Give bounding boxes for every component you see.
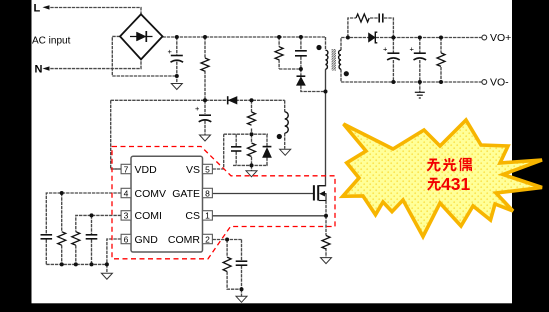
aux winding [285, 112, 289, 133]
svg-text:VO-: VO- [490, 77, 509, 89]
wire COMI cap [91, 215, 93, 264]
junction COMR node [225, 238, 229, 242]
wire COMV resistor [61, 193, 63, 264]
diode D-out (schottky) [369, 32, 378, 43]
wire VS network bottom node [233, 164, 268, 166]
junction load resistor top node [439, 36, 443, 40]
svg-text:AC input: AC input [32, 36, 71, 47]
junction left-bank rail node 1 [60, 262, 64, 266]
starburst text 无光偶 / 无431 [427, 158, 471, 190]
L terminal arrow [43, 5, 50, 9]
svg-text:L: L [34, 3, 41, 15]
svg-text:2: 2 [205, 234, 210, 244]
ground (aux winding) [280, 149, 291, 155]
svg-text:VS: VS [186, 164, 200, 176]
wire primary top [325, 37, 327, 50]
wire VDD pin stub [111, 168, 121, 170]
wire out snubber loop [348, 18, 394, 38]
junction VS network bottom node [250, 163, 254, 167]
wire N line [46, 60, 141, 69]
ground (COMR) [236, 296, 247, 302]
junction left-bank rail node 3 [90, 262, 94, 266]
junction bulk-cap top node [175, 35, 179, 39]
wire snubber C branch [300, 37, 302, 69]
junction output cap1 top node [391, 36, 395, 40]
junction VS network top node [250, 132, 254, 136]
junction aux rail VS-divider node [250, 98, 254, 102]
wire GATE [213, 193, 314, 195]
junction VDD node [203, 98, 207, 102]
resistor R-out-snub (horizontal) [356, 14, 369, 22]
resistor R-startup [201, 58, 209, 71]
wire earth ground stub [419, 82, 421, 92]
svg-text:8: 8 [205, 188, 210, 198]
junction left-bank rail node 2 [74, 262, 78, 266]
svg-text:VDD: VDD [135, 164, 158, 176]
IC pin labels [135, 164, 201, 246]
svg-text:COMR: COMR [168, 234, 200, 246]
junction load resistor bottom node [439, 80, 443, 84]
wire L line [46, 8, 141, 15]
pin 4 [121, 188, 131, 197]
bridge inner diode [130, 31, 153, 42]
svg-text:5: 5 [205, 164, 210, 174]
mosfet arrow [319, 191, 325, 197]
secondary dot [344, 71, 349, 76]
primary dot [316, 45, 321, 50]
wire VS divider upper resistor [251, 100, 253, 134]
wire input cap branch [176, 37, 178, 84]
pin 2 [203, 234, 213, 243]
svg-text:COMI: COMI [135, 210, 162, 222]
junction CS sense node [324, 214, 328, 218]
red dashed boundary [112, 147, 335, 259]
diode D-snub (points up) [297, 76, 306, 85]
wire GND pin [107, 239, 121, 273]
ground (VS net) [246, 171, 257, 177]
svg-text:GATE: GATE [172, 188, 200, 200]
ground (GND pin) [101, 273, 112, 279]
wire bridge left corner to primary ground [112, 36, 177, 76]
bridge rectifier BR1 [120, 14, 163, 59]
wire DC+ rail [163, 36, 326, 38]
svg-text:+: + [168, 47, 173, 56]
wire COMI [76, 215, 121, 264]
svg-text:+: + [195, 104, 200, 113]
junction left-bank rail GND node [105, 262, 109, 266]
svg-text:GND: GND [135, 234, 159, 246]
光 [443, 158, 455, 171]
N terminal arrow [43, 66, 50, 70]
svg-text:1: 1 [205, 211, 210, 221]
svg-text:N: N [35, 64, 43, 76]
capacitor C-vdd [199, 115, 212, 122]
resistor R-comi [72, 232, 80, 245]
svg-text:COMV: COMV [135, 188, 167, 200]
junction output cap1 bottom node [391, 80, 395, 84]
pin 3 [121, 211, 131, 220]
无 (line2) [428, 179, 440, 190]
junction output cap2 bottom node [418, 80, 422, 84]
VO+ terminal [482, 35, 487, 40]
wire VS pin to network [213, 134, 224, 169]
diode D-vs (zener up) [263, 147, 272, 158]
svg-text:CS: CS [185, 210, 200, 222]
无 (line1) [427, 159, 439, 170]
resistor R-cs [322, 236, 330, 249]
resistor R-snub [275, 47, 283, 60]
wire left bank bottom rail [46, 263, 107, 265]
capacitor C-vs [231, 147, 241, 151]
transformer T1 primary [326, 50, 328, 69]
wire aux winding bottom [284, 133, 286, 149]
svg-text:6: 6 [124, 234, 129, 244]
junction COMR ground node [240, 287, 244, 291]
ground (VDD cap) [200, 135, 211, 141]
偶 [459, 158, 471, 171]
junction COMV node [60, 191, 64, 195]
capacitor C-out1 [387, 53, 400, 60]
pin 1 [203, 211, 213, 220]
wire aux winding top [284, 100, 286, 112]
wire COMV [46, 193, 121, 264]
junction snubber RC-diode node [299, 67, 303, 71]
wire secondary top [341, 38, 484, 51]
wire snubber R branch [278, 37, 280, 69]
ground (CS resistor) [321, 258, 332, 264]
wire drain [319, 69, 326, 186]
svg-text:4: 4 [124, 188, 129, 198]
junction COMI node [90, 213, 94, 217]
capacitor C-comv1 [41, 235, 53, 239]
capacitor C-in (bulk) [171, 56, 184, 63]
aux winding dot [277, 134, 282, 139]
starburst [343, 120, 542, 237]
capacitor C-snub [295, 51, 307, 56]
ground (primary, bulk cap) [171, 84, 182, 90]
wire out resistor [440, 38, 442, 83]
wire secondary bottom [341, 69, 484, 82]
capacitor C-out-snub [379, 14, 383, 23]
earth ground (output) [415, 92, 425, 98]
capacitor C-comi [86, 235, 98, 239]
wire VDD cap branch [204, 100, 206, 134]
wire COMR cap branch [241, 240, 243, 297]
resistor R-vs [248, 143, 256, 156]
junction snubber return / drain node [324, 90, 328, 94]
pin 6 [121, 234, 131, 243]
resistor R-comv [58, 232, 66, 245]
resistor R-comr [223, 257, 231, 271]
wire snubber bottom [279, 69, 325, 92]
junction output cap2 top node [418, 36, 422, 40]
wire CS [213, 215, 327, 217]
diode D-aux [228, 96, 237, 104]
wire startup resistor branch [204, 37, 206, 100]
pin 8 [203, 188, 213, 197]
IC U1 body [131, 156, 203, 252]
transformer T1 secondary [339, 50, 341, 69]
capacitor C-out2 [414, 53, 427, 60]
svg-text:VO+: VO+ [490, 32, 511, 44]
wire VS net diode branch [266, 134, 268, 165]
junction primary ground node [175, 74, 179, 78]
svg-text:3: 3 [124, 211, 129, 221]
VO- terminal [482, 80, 487, 85]
MOSFET Q1 [314, 185, 326, 200]
wire VS network top node [224, 133, 268, 135]
pin 7 [121, 164, 131, 173]
resistor R-load [437, 53, 445, 67]
resistor R-vs-upper [248, 112, 256, 125]
capacitor C-comr [236, 261, 248, 265]
junction secondary snubber left node [346, 36, 350, 40]
svg-text:7: 7 [124, 164, 129, 174]
junction startup-resistor top node [203, 35, 207, 39]
transformer core [332, 49, 336, 71]
svg-text:+: + [383, 45, 388, 54]
pin 5 [203, 164, 213, 173]
wire VS net cap branch [235, 134, 237, 165]
svg-text:431: 431 [441, 174, 470, 194]
wire VS net resistor branch [251, 134, 253, 170]
junction snubber-C rail node [299, 35, 303, 39]
wire out cap1 [392, 38, 394, 83]
wire aux rail [111, 100, 285, 169]
junction snubber-R rail node [277, 35, 281, 39]
wire COMR [213, 240, 242, 290]
svg-text:+: + [410, 45, 415, 54]
wire mosfet source down [325, 201, 327, 258]
wire out cap2 [419, 38, 421, 83]
